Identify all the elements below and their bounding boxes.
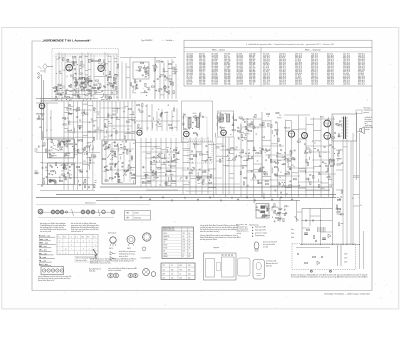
resistor R114 [64, 165, 65, 168]
text line [200, 228, 237, 231]
wire [223, 165, 229, 167]
component body [150, 166, 152, 169]
resistor R257 [287, 173, 290, 174]
capacitor C178 [318, 171, 320, 174]
resistor R142 [114, 145, 117, 146]
capacitor C15 [110, 92, 113, 94]
resistor R107 [51, 140, 52, 143]
resistor R258 [258, 180, 259, 183]
resistor R297 [277, 212, 280, 213]
junction node [193, 167, 194, 168]
junction node [270, 179, 271, 180]
wire [112, 108, 116, 110]
capacitor C66 [63, 140, 65, 143]
capacitor C42 [165, 77, 168, 79]
voltage table [162, 227, 194, 259]
wire [320, 208, 322, 244]
wire [236, 154, 238, 157]
value label [116, 97, 118, 99]
capacitor C80 [112, 150, 115, 152]
value label [67, 118, 69, 120]
resistor R112 [50, 180, 53, 181]
dial cord caption [85, 203, 96, 205]
wire [151, 122, 153, 128]
resistor R238 [325, 165, 328, 166]
wire [69, 99, 72, 101]
wire [56, 93, 59, 95]
wire [126, 66, 130, 68]
capacitor C30 [113, 82, 115, 85]
capacitor C225 [283, 209, 286, 211]
wire [207, 137, 209, 194]
text line [71, 228, 99, 231]
text line [237, 233, 242, 235]
wire [193, 144, 195, 148]
resistor R158 [44, 143, 45, 146]
resistor R150 [93, 137, 94, 140]
capacitor C153 [237, 137, 240, 139]
wire [93, 155, 97, 157]
wire [305, 189, 330, 191]
resistor R231 [256, 153, 259, 154]
resistor R273 [336, 124, 339, 125]
value label [132, 91, 134, 93]
value label [152, 148, 154, 150]
junction node [155, 64, 156, 65]
IF coil winding [197, 118, 200, 128]
text line [108, 267, 138, 270]
chassis socket hole [222, 254, 224, 256]
resistor R95 [69, 121, 70, 124]
svg-text:EC92: EC92 [98, 63, 103, 65]
capacitor C139 [142, 166, 144, 169]
wire [56, 149, 58, 151]
capacitor C215 [297, 253, 299, 256]
wire [340, 245, 342, 267]
resistor R47 [97, 87, 100, 88]
component body [94, 108, 95, 109]
wire [78, 98, 80, 100]
tube EABC80 V7 [288, 131, 294, 138]
wire [99, 101, 101, 140]
wire [156, 167, 161, 169]
wire [195, 137, 197, 194]
junction node [162, 158, 163, 159]
IF can body [261, 206, 266, 209]
component body [242, 140, 243, 141]
resistor R151 [85, 179, 86, 182]
capacitor C210 [339, 198, 341, 201]
value label [324, 163, 327, 165]
wire [108, 76, 111, 78]
resistor R78 [163, 87, 166, 88]
resistor R135 [124, 146, 125, 149]
capacitor C217 [263, 206, 266, 208]
capacitor C132 [191, 150, 194, 152]
wire [106, 130, 108, 134]
capacitor C7 [79, 64, 81, 67]
wire [302, 220, 332, 222]
resistor R68 [151, 86, 154, 87]
wire [40, 190, 95, 192]
resistor R29 [92, 87, 95, 88]
label OA79 [127, 247, 131, 250]
mains switch [295, 216, 299, 221]
resistor R299 [274, 210, 275, 213]
diode case drawing D1 [110, 237, 116, 243]
resistor R165 [170, 127, 173, 128]
capacitor C200 [306, 151, 308, 154]
resistor R256 [243, 182, 244, 185]
junction node [84, 77, 85, 78]
resistor R287 [306, 229, 309, 230]
resistor R58 [145, 69, 146, 72]
resistor R292 [265, 205, 268, 206]
capacitor C87 [126, 149, 128, 152]
wire [108, 114, 112, 116]
resistor R205 [231, 148, 234, 149]
wire [261, 112, 263, 197]
capacitor C160 [246, 159, 249, 161]
wire [81, 148, 84, 150]
voltage table header2 [163, 229, 175, 232]
component body [289, 160, 290, 161]
text line [71, 226, 99, 229]
dial lamp [99, 59, 101, 61]
capacitor C156 [242, 119, 245, 121]
junction node [71, 130, 72, 131]
wire [107, 101, 109, 140]
wire [50, 155, 52, 157]
capacitor C12 [82, 87, 85, 89]
wire [126, 77, 130, 79]
wire [196, 176, 202, 178]
junction node [79, 128, 80, 129]
text line [71, 230, 84, 233]
capacitor C102 [85, 153, 88, 155]
junction node [98, 114, 99, 115]
wire [94, 76, 105, 78]
capacitor C35 [132, 86, 135, 88]
wire [276, 175, 300, 177]
component body [81, 111, 83, 114]
wire [77, 126, 82, 128]
capacitor C71 [49, 164, 51, 167]
junction node [55, 173, 56, 174]
wire [85, 83, 88, 85]
component body [79, 119, 81, 122]
dial pulley [102, 210, 105, 213]
wire [191, 162, 193, 164]
wire [65, 65, 73, 67]
wire [76, 80, 78, 84]
resistor R7 [73, 63, 74, 66]
wire [247, 158, 254, 160]
heading line [39, 260, 46, 262]
wire [174, 158, 179, 160]
capacitor C105 [75, 143, 77, 146]
component body [66, 145, 68, 148]
value label [220, 132, 222, 134]
resistor R57 [143, 67, 146, 68]
junction node [83, 77, 84, 78]
resistor R116 [49, 180, 52, 181]
text line [90, 257, 137, 260]
component body [245, 153, 247, 154]
wire [75, 56, 77, 99]
resistor R186 [176, 152, 179, 153]
resistor R216 [251, 122, 252, 125]
capacitor C67 [67, 172, 69, 175]
resistor R26 [73, 78, 76, 79]
resistor R1 [95, 60, 98, 61]
capacitor C28 [107, 83, 109, 86]
resistor R174 [233, 119, 236, 120]
junction node [334, 153, 335, 154]
resistor R10 [70, 75, 73, 76]
wire [312, 159, 334, 161]
capacitor C199 [279, 192, 282, 194]
dial pulley group 2 [81, 210, 85, 214]
resistor R46 [87, 89, 90, 90]
resistor R171 [200, 113, 201, 116]
capacitor C152 [245, 128, 248, 130]
value label [87, 143, 89, 145]
capacitor C70 [68, 166, 71, 168]
capacitor C48 [161, 61, 164, 63]
text line [266, 265, 272, 267]
resistor R221 [271, 125, 272, 128]
socket circle 4 [56, 269, 59, 272]
coil core [262, 215, 268, 217]
resistor R48 [58, 84, 61, 85]
junction node [85, 185, 86, 186]
AFC dashed line [54, 55, 118, 57]
wire [168, 68, 172, 70]
IF coil winding [220, 114, 223, 122]
resistor R59 [147, 71, 148, 74]
heading line [39, 238, 48, 241]
resistor R272 [332, 137, 335, 138]
capacitor C79 [123, 151, 125, 154]
heading underline [39, 250, 51, 252]
resistor R169 [142, 103, 143, 106]
resistor R270 [283, 186, 286, 187]
wire [254, 169, 263, 171]
wire [83, 183, 88, 185]
wire [61, 141, 63, 143]
wire [128, 118, 132, 120]
resistor R266 [264, 171, 265, 174]
dial pulley group 1 [51, 210, 55, 214]
capacitor C218 [261, 206, 264, 208]
wire [171, 59, 173, 99]
resistor R71 [172, 82, 173, 85]
caption under frame [324, 293, 371, 296]
wire [104, 127, 108, 129]
grid line [57, 246, 98, 248]
junction node [180, 179, 181, 180]
wire [223, 156, 229, 158]
component body [88, 164, 90, 167]
wire [205, 183, 240, 185]
resistor R301 [276, 214, 279, 215]
resistor R5 [109, 71, 110, 74]
capacitor C63 [49, 152, 51, 155]
wire [108, 61, 111, 63]
wire [278, 175, 286, 177]
table row line [162, 237, 194, 239]
wire [79, 57, 82, 59]
wire [120, 57, 176, 59]
junction node [60, 86, 61, 87]
value label [222, 145, 224, 147]
wire [117, 169, 119, 174]
wire [120, 181, 123, 183]
component body [107, 147, 109, 148]
junction node [189, 182, 190, 183]
text line [365, 128, 370, 131]
capacitor C127 [219, 126, 222, 128]
resistor R212 [255, 114, 256, 117]
heading underline [39, 236, 55, 238]
value label [234, 149, 238, 151]
component body [123, 111, 125, 112]
capacitor C170 [294, 158, 296, 161]
resistor R224 [245, 126, 246, 129]
wire [103, 171, 106, 173]
capacitor C64 [61, 140, 64, 142]
capacitor C126 [232, 123, 234, 126]
value label [247, 119, 249, 121]
text line [76, 260, 87, 262]
resistor R52 [100, 84, 101, 87]
wire [170, 138, 172, 187]
wire [262, 145, 284, 147]
resistor R140 [105, 180, 108, 181]
value label [41, 146, 44, 148]
wire [68, 105, 73, 107]
capacitor C54 [123, 135, 126, 137]
junction node [232, 125, 233, 126]
junction node [244, 137, 245, 138]
resistor R207 [220, 159, 221, 162]
wire [58, 52, 60, 99]
resistor R137 [114, 151, 115, 154]
resistor R302 [283, 218, 284, 221]
wire [183, 148, 190, 150]
component body [155, 90, 157, 91]
junction node [253, 117, 254, 118]
resistor R167 [138, 124, 139, 127]
component body [91, 119, 93, 120]
resistor R202 [198, 177, 199, 180]
capacitor C14 [77, 94, 79, 97]
heading Germanium [108, 232, 117, 234]
wire [119, 101, 121, 140]
wire [207, 154, 209, 159]
wire [277, 168, 279, 172]
capacitor C186 [262, 166, 264, 169]
ratio detector box [256, 204, 269, 219]
socket bottom view rosette [108, 273, 114, 278]
capacitor C224 [285, 205, 288, 207]
wire [82, 64, 85, 66]
wire [294, 179, 296, 181]
heading underline [39, 265, 51, 267]
wire [176, 108, 178, 131]
wire [136, 175, 213, 177]
junction node [104, 167, 105, 168]
wire [220, 128, 222, 130]
wire [96, 101, 98, 140]
wire [150, 138, 152, 187]
junction node [113, 178, 114, 179]
capacitor C129 [209, 159, 212, 161]
label EABC80 [284, 127, 290, 130]
resistor R260 [268, 155, 269, 158]
wire [171, 110, 173, 131]
tube base diagram [143, 233, 151, 241]
wire [145, 68, 147, 72]
wire [67, 69, 72, 71]
capacitor C149 [191, 169, 193, 172]
wire [101, 98, 105, 100]
terminal bus wire [300, 244, 360, 246]
table row line [162, 243, 194, 245]
wire [91, 86, 93, 90]
component body [66, 88, 67, 91]
capacitor C133 [206, 151, 208, 154]
resistor R203 [203, 181, 204, 184]
dial cord line [38, 216, 114, 218]
wire [173, 159, 177, 161]
value label [77, 82, 79, 84]
capacitor C23 [68, 85, 71, 87]
wire [286, 157, 292, 159]
wire [166, 111, 168, 131]
wire [66, 76, 68, 78]
resistor R136 [125, 170, 128, 171]
wire [285, 120, 287, 197]
wire [247, 158, 254, 160]
resistor R49 [75, 91, 78, 92]
wire [79, 56, 82, 58]
resistor R143 [109, 144, 110, 147]
wire [263, 207, 268, 209]
resistor R69 [154, 67, 157, 68]
wire [278, 175, 286, 177]
wire [114, 73, 117, 75]
text line [71, 222, 96, 225]
capacitor C188 [260, 167, 263, 169]
wire [77, 152, 82, 154]
resistor R245 [306, 160, 307, 163]
junction node [226, 116, 227, 117]
wire [59, 87, 62, 89]
resistor R138 [124, 170, 127, 171]
component body [104, 149, 106, 150]
wire [94, 129, 102, 131]
wire [183, 113, 185, 130]
wire [146, 86, 150, 88]
junction node [230, 134, 231, 135]
resistor R298 [274, 204, 275, 207]
component body [46, 129, 47, 132]
wire [328, 159, 330, 164]
label 220V [344, 254, 348, 256]
value label [116, 68, 118, 70]
